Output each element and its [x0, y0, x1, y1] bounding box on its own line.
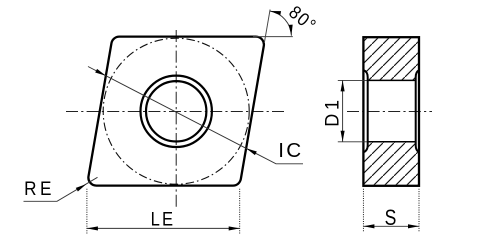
- wire D1 dimension line: [342, 80, 344, 141]
- wire S extension line left: [362, 189, 364, 233]
- wire vertical centerline (left view): [175, 30, 177, 208]
- svg-text:LE: LE: [151, 208, 176, 230]
- node bore line right: [416, 70, 419, 152]
- wire hole top line (object part): [368, 79, 416, 81]
- wire RE leader line: [24, 177, 98, 201]
- wire S dimension line: [363, 225, 419, 227]
- node S-dimension: [363, 189, 419, 233]
- node bottom hatch region: [365, 143, 418, 185]
- node insert-outline (rounded rhombus): [88, 37, 264, 186]
- node 80deg-angle-dimension: [253, 1, 321, 43]
- svg-text:IC: IC: [278, 140, 303, 162]
- node IC-dimension: [88, 67, 303, 164]
- node IC arrow left: [95, 69, 107, 78]
- node RE arrow: [76, 182, 88, 191]
- wire angle arc: [270, 11, 292, 36]
- node arc arrow bottom: [289, 25, 294, 36]
- node LE-dimension: [87, 189, 240, 234]
- node inscribed-circle (dash-dot pitch circle): [103, 38, 249, 184]
- wire LE extension line left: [86, 189, 88, 234]
- svg-text:RE: RE: [24, 177, 55, 199]
- wire LE dimension line: [87, 227, 240, 229]
- wire horizontal centerline (side view): [347, 111, 432, 113]
- wire horizontal centerline (left view): [66, 111, 284, 113]
- node side-view: [338, 37, 432, 186]
- wire hole bottom line (object part): [368, 141, 416, 143]
- node LE arrow left: [87, 226, 98, 230]
- wire IC diagonal dimension line: [88, 67, 303, 164]
- wire S extension line right: [418, 189, 420, 233]
- node LE arrow right: [229, 226, 240, 230]
- node D1-dimension: [321, 80, 344, 141]
- node RE-leader: [24, 177, 98, 201]
- node S arrow left: [363, 224, 374, 228]
- node top hatch region: [365, 38, 418, 80]
- node IC arrow right: [245, 146, 257, 155]
- wire hole top line (extension part): [338, 79, 368, 81]
- svg-text:D1: D1: [321, 96, 343, 127]
- node left-view: [66, 30, 284, 208]
- wire top edge extension line: [253, 36, 293, 38]
- node arc arrow top: [270, 9, 282, 15]
- node hole inner circle: [146, 81, 206, 141]
- wire right edge extension line: [264, 10, 270, 44]
- node hole outer circle: [141, 76, 212, 147]
- wire hole bottom line (extension part): [338, 141, 368, 143]
- node S arrow right: [408, 224, 419, 228]
- node D1 arrow bottom: [341, 131, 345, 142]
- node D1 arrow top: [341, 80, 345, 91]
- wire LE extension line right: [239, 189, 241, 234]
- node side-view outline rectangle: [363, 37, 419, 186]
- node bore line left: [364, 70, 368, 152]
- svg-text:S: S: [385, 206, 397, 230]
